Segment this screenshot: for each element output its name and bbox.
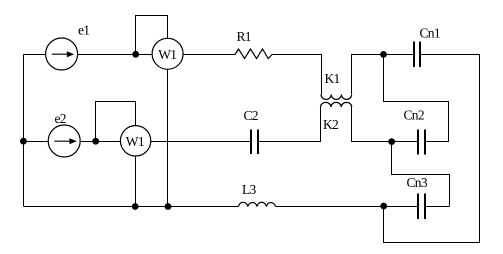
svg-text:W1: W1: [126, 134, 144, 149]
svg-text:Cn1: Cn1: [420, 25, 440, 40]
svg-text:e1: e1: [78, 23, 89, 38]
svg-text:Cn3: Cn3: [407, 175, 428, 190]
svg-text:K1: K1: [325, 71, 340, 86]
svg-text:e2: e2: [55, 111, 66, 126]
svg-text:C2: C2: [244, 108, 258, 123]
svg-text:L3: L3: [242, 182, 257, 197]
svg-text:R1: R1: [237, 29, 251, 44]
svg-text:W1: W1: [158, 47, 176, 62]
svg-text:Cn2: Cn2: [404, 108, 424, 123]
svg-text:K2: K2: [323, 117, 338, 132]
